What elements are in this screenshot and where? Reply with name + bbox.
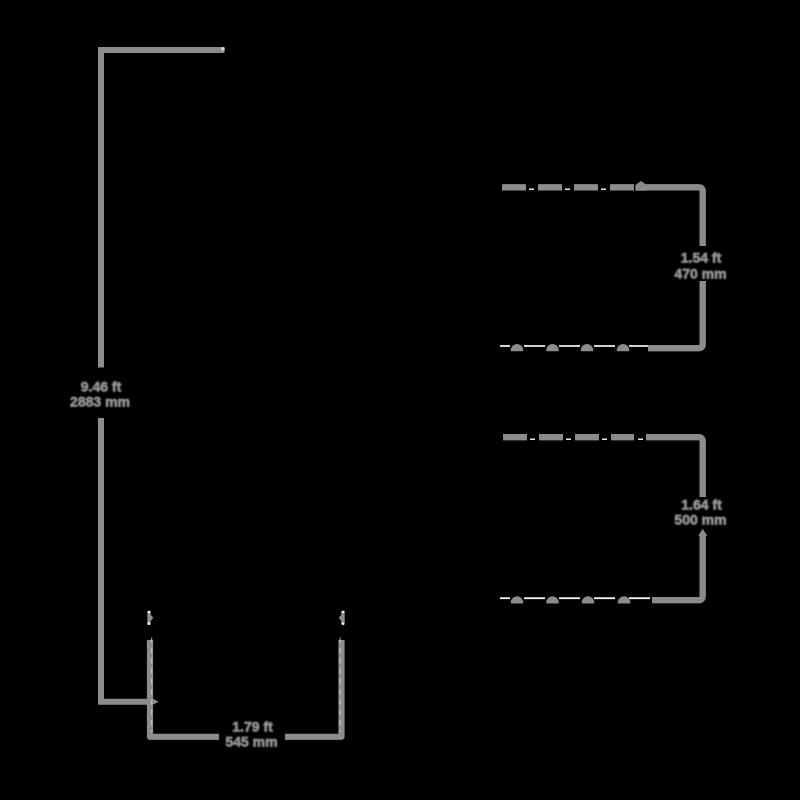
box B top dashed edge bbox=[503, 434, 634, 440]
svg-text:1.54 ft: 1.54 ft bbox=[681, 250, 722, 266]
svg-text:470 mm: 470 mm bbox=[674, 265, 726, 281]
box B top-right corner and upper vertical bbox=[646, 437, 703, 497]
svg-text:545 mm: 545 mm bbox=[225, 733, 277, 749]
W1 right marker white cap bottom bbox=[341, 622, 344, 625]
box B up-arrow under label bbox=[699, 530, 706, 536]
W1 left marker white cap top bbox=[147, 611, 150, 614]
box B top edge white ticks bbox=[530, 438, 648, 440]
white tip dash at top arm end bbox=[221, 47, 225, 50]
box A top up-arrow bump bbox=[636, 182, 646, 190]
dimension W1 (bottom width) left extension line bbox=[150, 640, 219, 737]
W1 left marker right-arrow bbox=[147, 613, 153, 623]
svg-text:2883 mm: 2883 mm bbox=[70, 394, 130, 410]
box A bottom white dashed edge bbox=[500, 345, 648, 347]
box A bottom up-arrow 2 bbox=[546, 344, 559, 351]
box A top dashed edge bbox=[502, 184, 634, 190]
svg-text:500 mm: 500 mm bbox=[674, 512, 726, 528]
box B bottom up-arrow 4 bbox=[618, 596, 631, 603]
box A top edge white ticks bbox=[529, 188, 636, 190]
box B bottom up-arrow 1 bbox=[511, 596, 524, 603]
W1 left marker white cap bottom bbox=[147, 622, 150, 625]
box B bottom white dashed edge bbox=[500, 597, 652, 599]
W1 right white dashed guide bbox=[339, 638, 341, 733]
W1 right marker white cap top bbox=[341, 611, 344, 614]
box B lower vertical and bottom-right corner bbox=[652, 533, 703, 600]
box B bottom up-arrow 2 bbox=[546, 596, 559, 603]
box A bottom up-arrow 1 bbox=[511, 344, 524, 351]
box A top-right corner and upper vertical bbox=[637, 187, 703, 246]
arrowhead right at H1 bottom arm end bbox=[152, 698, 159, 705]
box B bottom up-arrow 3 bbox=[582, 596, 595, 603]
dimension bracket H1 (left height dimension) top arm and upper vertical bbox=[101, 50, 225, 368]
svg-text:1.64 ft: 1.64 ft bbox=[681, 497, 722, 513]
W1 right marker left-arrow bbox=[339, 613, 345, 623]
svg-text:1.79 ft: 1.79 ft bbox=[232, 719, 273, 735]
W1 left white dashed guide bbox=[151, 638, 153, 733]
dimension W1 right extension line bbox=[285, 640, 342, 737]
box A lower vertical and bottom-right corner bbox=[648, 281, 703, 348]
box A bottom up-arrow 3 bbox=[581, 344, 594, 351]
svg-text:9.46 ft: 9.46 ft bbox=[81, 379, 122, 395]
dimension bracket H1 lower vertical and bottom arm bbox=[101, 418, 153, 702]
box A bottom up-arrow 4 bbox=[617, 344, 630, 351]
